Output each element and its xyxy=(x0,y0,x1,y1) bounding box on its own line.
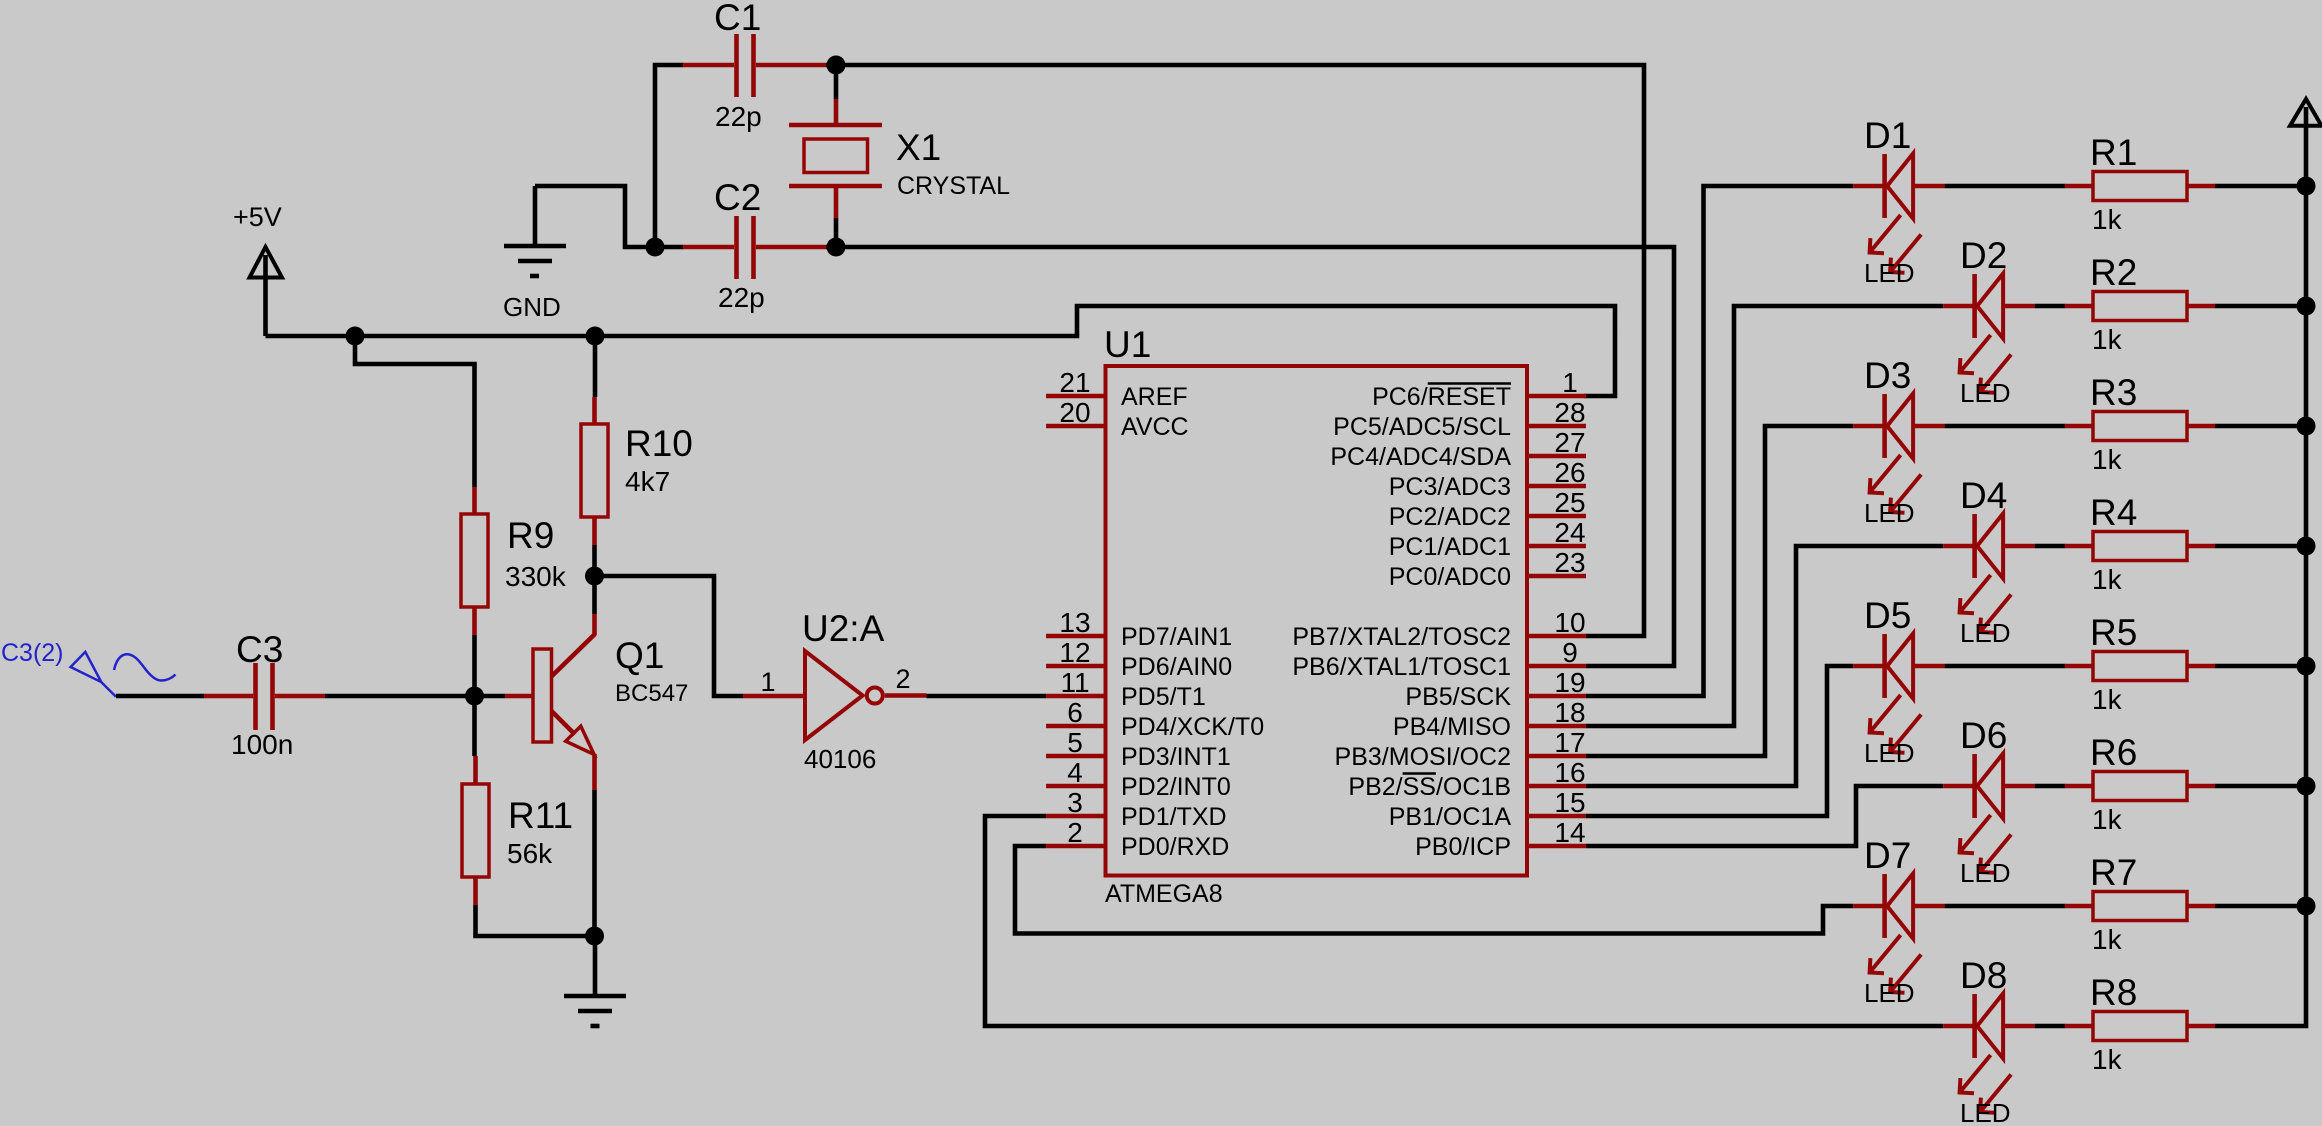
svg-text:12: 12 xyxy=(1059,637,1090,668)
svg-text:4k7: 4k7 xyxy=(625,466,670,497)
resistor R1 xyxy=(2065,184,2093,189)
svg-text:C1: C1 xyxy=(714,0,761,38)
junction emitter/R11/GND xyxy=(585,927,604,946)
svg-text:PC3/ADC3: PC3/ADC3 xyxy=(1389,473,1511,501)
wire top rail C1 to U1 pin10 (XTAL2) xyxy=(826,65,1644,636)
wire base node to U2:A input xyxy=(595,576,744,696)
svg-text:GND: GND xyxy=(503,292,561,322)
svg-text:LED: LED xyxy=(1960,378,2011,408)
svg-text:C3: C3 xyxy=(236,629,283,670)
svg-text:1k: 1k xyxy=(2092,564,2123,595)
svg-text:PD0/RXD: PD0/RXD xyxy=(1121,833,1229,861)
wire R4 to +5V bus xyxy=(2215,544,2306,549)
node C3(2) input marker xyxy=(71,652,102,682)
svg-text:PB5/SCK: PB5/SCK xyxy=(1405,683,1511,711)
svg-text:2: 2 xyxy=(895,664,910,694)
svg-text:PD1/TXD: PD1/TXD xyxy=(1121,803,1227,831)
svg-text:LED: LED xyxy=(1864,258,1915,288)
svg-text:16: 16 xyxy=(1554,757,1585,788)
junction C2 left xyxy=(646,238,665,257)
wire GND to C2 row xyxy=(535,186,683,247)
svg-text:R7: R7 xyxy=(2090,852,2137,893)
wire D3 to R3 xyxy=(1945,424,2065,429)
svg-text:AVCC: AVCC xyxy=(1121,413,1189,441)
svg-text:U2:A: U2:A xyxy=(802,608,885,649)
svg-text:D6: D6 xyxy=(1960,715,2007,756)
svg-text:1: 1 xyxy=(1562,367,1578,398)
svg-text:D8: D8 xyxy=(1960,955,2007,996)
svg-text:21: 21 xyxy=(1059,367,1090,398)
U1 pin 13 (PD7/AIN1) stub+number xyxy=(1046,607,1105,638)
capacitor C2 xyxy=(683,245,734,250)
U1 pin 5 (PD3/INT1) stub+number xyxy=(1046,727,1105,758)
svg-text:Q1: Q1 xyxy=(615,635,664,676)
transistor Q1 base bar xyxy=(505,694,533,699)
U1 pin 18 (PB4/MISO) stub+number xyxy=(1527,697,1586,728)
junction +5V/R10 xyxy=(586,327,605,346)
junction C1/XTAL top xyxy=(827,56,846,75)
svg-text:PD3/INT1: PD3/INT1 xyxy=(1121,743,1231,771)
wire D8 to R8 xyxy=(2035,1024,2065,1029)
inverter U2:A xyxy=(743,694,805,699)
svg-text:11: 11 xyxy=(1060,667,1089,698)
svg-text:PD5/T1: PD5/T1 xyxy=(1121,683,1206,711)
resistor R8 xyxy=(2065,1024,2093,1029)
svg-text:R6: R6 xyxy=(2090,732,2137,773)
U1 pin 14 (PB0/ICP) stub+number xyxy=(1527,817,1586,848)
resistor R6 xyxy=(2065,784,2093,789)
U1 pin 28 (PC5/ADC5/SCL) stub+number xyxy=(1527,397,1586,428)
LED D6 xyxy=(1943,784,1975,789)
svg-text:PD7/AIN1: PD7/AIN1 xyxy=(1121,623,1232,651)
svg-text:LED: LED xyxy=(1960,1098,2011,1126)
wire R5 to +5V bus xyxy=(2215,664,2306,669)
wire U1 pin19 to D1 xyxy=(1586,186,1853,696)
LED D8 xyxy=(1943,1024,1975,1029)
svg-text:9: 9 xyxy=(1562,637,1578,668)
power arrow right bus (+5V) xyxy=(2290,99,2322,126)
svg-text:PD4/XCK/T0: PD4/XCK/T0 xyxy=(1121,713,1264,741)
wire input to C3 xyxy=(116,694,204,699)
LED D5 xyxy=(1853,664,1885,669)
svg-text:PD6/AIN0: PD6/AIN0 xyxy=(1121,653,1232,681)
svg-text:CRYSTAL: CRYSTAL xyxy=(897,172,1010,200)
svg-text:14: 14 xyxy=(1554,817,1585,848)
wire C2 row to U1 pin9 (XTAL1) xyxy=(826,247,1674,666)
svg-text:X1: X1 xyxy=(896,127,941,168)
wire D6 to R6 xyxy=(2035,784,2065,789)
resistor R4 xyxy=(2065,544,2093,549)
U1 pin 11 (PD5/T1) stub+number xyxy=(1046,667,1105,698)
U1 pin 6 (PD4/XCK/T0) stub+number xyxy=(1046,697,1105,728)
svg-text:R8: R8 xyxy=(2090,972,2137,1013)
wire D4 to R4 xyxy=(2035,544,2065,549)
svg-text:LED: LED xyxy=(1960,618,2011,648)
resistor R9 xyxy=(472,487,477,514)
wire R10 to collector node xyxy=(592,545,597,576)
IC U1 ATMEGA8 body xyxy=(1106,366,1528,876)
svg-text:PB7/XTAL2/TOSC2: PB7/XTAL2/TOSC2 xyxy=(1292,623,1511,651)
LED D1 xyxy=(1853,184,1885,189)
svg-text:1k: 1k xyxy=(2092,204,2123,235)
LED D4 xyxy=(1943,544,1975,549)
svg-text:PC0/ADC0: PC0/ADC0 xyxy=(1389,563,1511,591)
svg-text:17: 17 xyxy=(1554,727,1585,758)
junction C3/R9/R11/base xyxy=(465,687,484,706)
U1 pin 23 (PC0/ADC0) stub+number xyxy=(1527,547,1586,578)
U1 pin 4 (PD2/INT0) stub+number xyxy=(1046,757,1105,788)
svg-text:27: 27 xyxy=(1554,427,1585,458)
LED D2 xyxy=(1943,304,1975,309)
svg-text:2: 2 xyxy=(1067,817,1083,848)
U1 pin 3 (PD1/TXD) stub+number xyxy=(1046,787,1105,818)
svg-text:PC4/ADC4/SDA: PC4/ADC4/SDA xyxy=(1330,443,1511,471)
LED D3 xyxy=(1853,424,1885,429)
resistor R3 xyxy=(2065,424,2093,429)
wire R9 to base node xyxy=(472,635,477,696)
wire XTAL top stem xyxy=(834,65,839,99)
svg-text:1k: 1k xyxy=(2092,924,2123,955)
ground GND (top) xyxy=(533,186,538,246)
wire R6 to +5V bus xyxy=(2215,784,2306,789)
U1 pin 24 (PC1/ADC1) stub+number xyxy=(1527,517,1586,548)
wire U1 pin18 to D2 xyxy=(1586,306,1943,726)
U1 pin 10 (PB7/XTAL2/TOSC2) stub+number xyxy=(1527,607,1586,638)
svg-text:1k: 1k xyxy=(2092,1044,2123,1075)
svg-text:56k: 56k xyxy=(507,838,553,869)
wire U1 pin17 to D3 xyxy=(1586,426,1853,756)
U1 pin 9 (PB6/XTAL1/TOSC1) stub+number xyxy=(1527,637,1586,668)
junction C2/XTAL bottom xyxy=(827,238,846,257)
wire U1 pin3 to D8 xyxy=(985,816,1943,1026)
svg-text:4: 4 xyxy=(1067,757,1083,788)
svg-text:15: 15 xyxy=(1554,787,1585,818)
svg-text:R1: R1 xyxy=(2090,132,2137,173)
junction bus row D6 xyxy=(2297,777,2316,796)
wire C3 to base node xyxy=(325,694,505,699)
svg-text:40106: 40106 xyxy=(804,744,876,774)
resistor R7 xyxy=(2065,904,2093,909)
wire D1 to R1 xyxy=(1945,184,2065,189)
U1 pin 19 (PB5/SCK) stub+number xyxy=(1527,667,1586,698)
svg-text:26: 26 xyxy=(1554,457,1585,488)
wire +5V to R9 xyxy=(355,336,475,487)
wire R1 to +5V bus xyxy=(2215,184,2306,189)
U1 pin 21 (AREF) stub+number xyxy=(1046,367,1105,398)
svg-text:LED: LED xyxy=(1864,498,1915,528)
capacitor C3 xyxy=(204,694,253,699)
wire R2 to +5V bus xyxy=(2215,304,2306,309)
svg-text:5: 5 xyxy=(1067,727,1083,758)
svg-text:R3: R3 xyxy=(2090,372,2137,413)
svg-text:R2: R2 xyxy=(2090,252,2137,293)
transistor Q1 collector xyxy=(592,576,597,614)
crystal X1 xyxy=(789,123,882,128)
wire U2:A output to U1 pin11 xyxy=(927,694,1047,699)
U1 pin 2 (PD0/RXD) stub+number xyxy=(1046,817,1105,848)
junction bus row D4 xyxy=(2297,537,2316,556)
transistor Q1 emitter xyxy=(552,711,576,735)
svg-text:18: 18 xyxy=(1554,697,1585,728)
svg-text:PB1/OC1A: PB1/OC1A xyxy=(1389,803,1512,831)
svg-text:PB4/MISO: PB4/MISO xyxy=(1393,713,1511,741)
wire R11 to emitter node xyxy=(476,905,595,936)
resistor R11 xyxy=(473,756,478,784)
svg-text:1: 1 xyxy=(760,667,775,697)
svg-text:PB3/MOSI/OC2: PB3/MOSI/OC2 xyxy=(1335,743,1511,771)
junction bus row D5 xyxy=(2297,657,2316,676)
svg-text:R9: R9 xyxy=(507,515,554,556)
power +5V symbol xyxy=(250,247,283,278)
wire emitter to ground node xyxy=(592,790,597,936)
svg-text:D3: D3 xyxy=(1864,355,1911,396)
LED D7 xyxy=(1853,904,1885,909)
svg-text:100n: 100n xyxy=(231,729,293,760)
svg-text:25: 25 xyxy=(1554,487,1585,518)
svg-text:U1: U1 xyxy=(1104,324,1151,365)
svg-text:13: 13 xyxy=(1059,607,1090,638)
svg-text:C2: C2 xyxy=(714,177,761,218)
U1 pin 1 (PC6/RESET) stub+number xyxy=(1527,367,1586,398)
resistor R10 xyxy=(592,397,597,424)
svg-text:6: 6 xyxy=(1067,697,1083,728)
junction bus row D1 xyxy=(2297,177,2316,196)
svg-text:D4: D4 xyxy=(1960,475,2007,516)
U1 pin 16 (PB2/SS/OC1B) stub+number xyxy=(1527,757,1586,788)
U1 pin 27 (PC4/ADC4/SDA) stub+number xyxy=(1527,427,1586,458)
wire XTAL bottom stem xyxy=(834,188,839,218)
svg-text:D1: D1 xyxy=(1864,115,1911,156)
input sine wave xyxy=(114,654,176,680)
svg-text:PC2/ADC2: PC2/ADC2 xyxy=(1389,503,1511,531)
svg-text:19: 19 xyxy=(1554,667,1585,698)
wire D5 to R5 xyxy=(1945,664,2065,669)
svg-text:PC5/ADC5/SCL: PC5/ADC5/SCL xyxy=(1333,413,1511,441)
U1 pin 12 (PD6/AIN0) stub+number xyxy=(1046,637,1105,668)
wire +5V to R10 xyxy=(593,336,598,397)
svg-text:1k: 1k xyxy=(2092,804,2123,835)
svg-text:C3(2): C3(2) xyxy=(1,639,64,667)
wire +5V rail to U1 pin1 (RESET) xyxy=(266,306,1616,396)
svg-text:D2: D2 xyxy=(1960,235,2007,276)
svg-text:1k: 1k xyxy=(2092,684,2123,715)
svg-text:+5V: +5V xyxy=(233,202,282,232)
wire U1 pin15 to D5 xyxy=(1586,666,1853,816)
svg-text:22p: 22p xyxy=(718,282,765,313)
svg-text:1k: 1k xyxy=(2092,324,2123,355)
wire U1 pin2 to D7 xyxy=(1015,846,1853,934)
U1 pin 17 (PB3/MOSI/OC2) stub+number xyxy=(1527,727,1586,758)
wire R3 to +5V bus xyxy=(2215,424,2306,429)
svg-text:3: 3 xyxy=(1067,787,1083,818)
svg-text:D7: D7 xyxy=(1864,835,1911,876)
U1 pin 26 (PC3/ADC3) stub+number xyxy=(1527,457,1586,488)
svg-text:LED: LED xyxy=(1864,738,1915,768)
wire R7 to +5V bus xyxy=(2215,904,2306,909)
resistor R2 xyxy=(2065,304,2093,309)
svg-text:AREF: AREF xyxy=(1121,383,1188,411)
svg-text:330k: 330k xyxy=(505,561,567,592)
U1 pin 25 (PC2/ADC2) stub+number xyxy=(1527,487,1586,518)
svg-text:BC547: BC547 xyxy=(615,680,688,707)
svg-text:10: 10 xyxy=(1554,607,1585,638)
svg-text:D5: D5 xyxy=(1864,595,1911,636)
svg-text:ATMEGA8: ATMEGA8 xyxy=(1105,880,1223,908)
svg-text:PD2/INT0: PD2/INT0 xyxy=(1121,773,1231,801)
svg-text:LED: LED xyxy=(1960,858,2011,888)
junction bus row D2 xyxy=(2297,297,2316,316)
wire U1 pin14 to D6 xyxy=(1586,786,1943,846)
svg-text:28: 28 xyxy=(1554,397,1585,428)
wire U1 pin16 to D4 xyxy=(1586,546,1943,786)
svg-text:PC6/RESET: PC6/RESET xyxy=(1372,383,1511,411)
svg-text:R10: R10 xyxy=(625,423,693,464)
svg-text:PB2/SS/OC1B: PB2/SS/OC1B xyxy=(1348,773,1511,801)
wire D7 to R7 xyxy=(1945,904,2065,909)
svg-text:PB0/ICP: PB0/ICP xyxy=(1415,833,1511,861)
wire D2 to R2 xyxy=(2035,304,2065,309)
svg-text:R11: R11 xyxy=(508,795,573,836)
svg-text:23: 23 xyxy=(1554,547,1585,578)
capacitor C1 xyxy=(683,63,734,68)
svg-text:PC1/ADC1: PC1/ADC1 xyxy=(1389,533,1511,561)
ground GND (bottom) xyxy=(593,936,598,996)
svg-text:20: 20 xyxy=(1059,397,1090,428)
junction bus row D3 xyxy=(2297,417,2316,436)
U1 pin 15 (PB1/OC1A) stub+number xyxy=(1527,787,1586,818)
svg-text:22p: 22p xyxy=(715,101,762,132)
svg-text:PB6/XTAL1/TOSC1: PB6/XTAL1/TOSC1 xyxy=(1292,653,1511,681)
svg-text:1k: 1k xyxy=(2092,444,2123,475)
U1 pin 20 (AVCC) stub+number xyxy=(1046,397,1105,428)
junction +5V/R9 xyxy=(346,327,365,346)
wire base node down to R11 xyxy=(472,696,477,756)
wire R8 to +5V bus corner xyxy=(2215,186,2306,1026)
svg-text:R5: R5 xyxy=(2090,612,2137,653)
junction bus row D7 xyxy=(2297,897,2316,916)
svg-text:LED: LED xyxy=(1864,978,1915,1008)
svg-text:24: 24 xyxy=(1554,517,1585,548)
resistor R5 xyxy=(2065,664,2093,669)
svg-text:R4: R4 xyxy=(2090,492,2137,533)
junction collector node xyxy=(585,567,604,586)
wire C1 left corner down to C2 row xyxy=(655,65,683,247)
